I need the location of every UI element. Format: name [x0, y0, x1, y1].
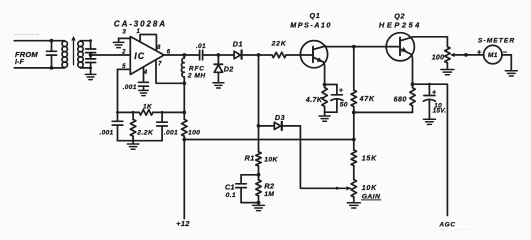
label: 22K [271, 41, 287, 48]
label: MPS-A10 [290, 21, 332, 30]
op-amp IC1 CA-3028A triangle [130, 37, 164, 75]
svg-text:3: 3 [122, 30, 126, 36]
diode D3 [259, 122, 301, 130]
node: Q2 emitter junction [411, 82, 415, 86]
svg-text:MPS-A10: MPS-A10 [290, 21, 332, 30]
svg-text:(+3 TO +10V.): (+3 TO +10V.) [427, 229, 471, 230]
svg-text:15K: 15K [362, 155, 377, 162]
ground: 100 pot [441, 63, 454, 75]
label: 1K [143, 104, 152, 111]
label: IC inside triangle [134, 51, 145, 61]
svg-text:+: + [477, 47, 482, 56]
wire: 4.7K bottom [325, 111, 337, 113]
label: Q1 [310, 11, 321, 20]
wire: input top rail [14, 34, 64, 40]
wire: R1 to R2 node [257, 166, 261, 180]
label: meter minus [503, 48, 508, 57]
wire: secondary top [81, 39, 93, 42]
svg-text:680: 680 [394, 97, 407, 104]
label: 15K [362, 155, 377, 162]
ground: 10uF [423, 119, 435, 124]
svg-text:10K: 10K [362, 185, 377, 192]
resistor 680 [410, 84, 415, 112]
svg-text:HEP254: HEP254 [379, 21, 422, 30]
label: pin 4 [143, 70, 148, 76]
label: D3 [275, 113, 285, 122]
svg-text:CA-3028A: CA-3028A [114, 19, 167, 28]
label: AGC [438, 222, 455, 229]
wire: 22K to Q1 base [286, 54, 301, 56]
label: 47K [359, 96, 375, 103]
label: 15V. [433, 108, 447, 115]
label: 2.2K [136, 130, 154, 137]
wire: bypass bottom [118, 139, 163, 142]
wire: C1 bottom branch [241, 196, 260, 205]
svg-text:+12: +12 [176, 219, 190, 228]
svg-text:Q1: Q1 [310, 11, 321, 20]
node: 47K bottom [352, 111, 356, 115]
label: 4.7K [305, 97, 323, 104]
wire: pin5 node to 1K [116, 111, 139, 114]
svg-text:RFC: RFC [189, 65, 205, 72]
label: S-METER [478, 38, 515, 45]
ground: bypass network [127, 141, 139, 150]
potentiometer 100 [445, 47, 450, 63]
label: pin 1 [136, 29, 140, 35]
wire: D3 to gain pot [300, 126, 350, 191]
wire: 47K to 680 [354, 111, 413, 113]
wire: input bottom rail [14, 67, 64, 69]
capacitor 50uF [331, 85, 343, 113]
transformer T1 primary winding [62, 41, 67, 67]
svg-text:4.7K: 4.7K [305, 97, 323, 104]
wire: +12 feed [183, 140, 185, 219]
wire: wiper to meter [458, 53, 484, 57]
pin 3 wire and ground [113, 38, 130, 47]
wire: Q2 collector to pot [413, 37, 447, 47]
label: 50 [340, 101, 348, 108]
svg-text:AGC: AGC [438, 222, 455, 229]
svg-text:100: 100 [432, 54, 445, 61]
label: R2 1M [264, 191, 274, 198]
wire: emitter to 50 cap [325, 84, 337, 86]
diode D2 to ground [214, 55, 222, 82]
wire: AGC line [446, 84, 448, 215]
label: HEP254 [379, 21, 422, 30]
node: +12 junction [182, 138, 186, 142]
node: divider tap [89, 53, 93, 57]
svg-text:D3: D3 [275, 113, 285, 122]
capacitor: divider top [86, 41, 96, 55]
ground: meter [505, 71, 517, 76]
node: input cap top [50, 39, 54, 43]
ground: transformer secondary [85, 68, 96, 80]
svg-text:S-METER: S-METER [478, 38, 515, 45]
ground: R2/C1 [253, 205, 265, 210]
transistor Q2 HEP254 [386, 33, 414, 85]
wire: Q1 collector to Q2 base [326, 46, 387, 48]
resistor 1K [139, 110, 153, 115]
label: AGC range [427, 229, 471, 236]
svg-text:IC: IC [134, 51, 145, 61]
label: pin 5 [122, 64, 126, 70]
label: FROM I-F [15, 50, 38, 66]
ground: D2 [213, 83, 224, 88]
node: Q1 emitter junction [323, 83, 327, 87]
label: R2 [264, 182, 275, 191]
svg-text:1: 1 [136, 29, 140, 35]
svg-text:1M: 1M [264, 191, 274, 198]
label: meter plus [477, 47, 482, 56]
node: pin7/RFC junction [182, 81, 186, 85]
svg-text:I-F: I-F [15, 59, 25, 66]
wire: 1K to 100 node [132, 111, 185, 114]
capacitor: divider bottom [86, 55, 96, 68]
resistor 100 supply [182, 119, 187, 136]
svg-text:C1: C1 [225, 182, 235, 191]
label: .01 [196, 43, 206, 50]
svg-text:4: 4 [143, 70, 148, 76]
potentiometer 10K GAIN [351, 180, 356, 203]
svg-text:10K: 10K [264, 157, 278, 164]
label: pin 8 [157, 45, 161, 51]
meter M1 [484, 45, 502, 63]
capacitor .01 coupling [200, 50, 203, 60]
wire: pin 5 drop [118, 69, 131, 112]
capacitor C .001 pin 4 [139, 82, 149, 90]
inductor RFC 2MH [181, 55, 184, 83]
label: plus 10uF [432, 90, 436, 97]
capacitor .001 left [112, 112, 123, 140]
svg-text:2 MH: 2 MH [187, 72, 206, 79]
wire: Q2 emitter to AGC corner [413, 83, 448, 86]
wire: 15K to pot [353, 166, 355, 180]
label: pin 2 [121, 49, 126, 55]
svg-text:0.1: 0.1 [226, 192, 236, 199]
svg-text:FROM: FROM [15, 50, 38, 59]
wire: bias rail to 15K [184, 139, 353, 141]
svg-text:50: 50 [340, 101, 348, 108]
resistor 22K [272, 52, 286, 57]
svg-text:+: + [339, 88, 343, 95]
transformer T1 core arrow [71, 36, 76, 65]
svg-text:Q2: Q2 [394, 11, 405, 20]
wire: pin 6 output [164, 53, 200, 57]
resistor 47K [351, 47, 356, 113]
svg-text:2: 2 [121, 49, 126, 55]
svg-text:2.2K: 2.2K [136, 130, 154, 137]
resistor R1 10K [256, 152, 261, 166]
wire: secondary bottom [81, 66, 93, 69]
svg-text:47K: 47K [359, 96, 375, 103]
label: 100 supply [188, 130, 200, 137]
label: .001 pin4 [123, 84, 137, 91]
capacitor .001 right [157, 112, 168, 140]
label: C1 [225, 182, 235, 191]
resistor 15K [351, 150, 356, 166]
label: 10K pot [362, 185, 377, 192]
resistor 4.7K [322, 85, 327, 113]
wire: 47K node down [352, 112, 356, 150]
svg-text:.01: .01 [196, 43, 206, 50]
label: .001 right [164, 130, 178, 137]
wire: pin 4 stub [143, 67, 145, 81]
label: plus 50 [339, 88, 343, 95]
wire: pin 1 to pin 8 loop [140, 35, 156, 51]
label: C1 0.1 [226, 192, 236, 199]
label: GAIN [362, 194, 381, 201]
label: pin 3 [122, 30, 126, 36]
capacitor: input tank cap [47, 41, 57, 68]
wire: meter to ground [502, 55, 511, 71]
label: 680 [394, 97, 407, 104]
svg-text:R2: R2 [264, 182, 275, 191]
svg-text:7: 7 [158, 62, 162, 68]
label: 10 [434, 102, 442, 109]
svg-text:1K: 1K [143, 104, 152, 111]
wire: D1 to 22K [243, 53, 272, 57]
wire: D1 output down [257, 55, 261, 152]
svg-text:D1: D1 [233, 39, 243, 48]
label: CA-3028A [114, 19, 167, 28]
svg-text:.001: .001 [99, 130, 113, 137]
svg-text:D2: D2 [224, 64, 234, 73]
wire: 100 to +12 node [183, 136, 185, 139]
label: pin 6 [167, 49, 171, 55]
label: RFC 2MH [187, 65, 206, 79]
svg-text:M1: M1 [488, 52, 498, 59]
svg-text:100: 100 [188, 130, 200, 137]
svg-text:15V.: 15V. [433, 108, 447, 115]
svg-text:R1: R1 [245, 154, 255, 163]
capacitor C1 0.1 [236, 184, 247, 203]
svg-text:.001: .001 [123, 84, 137, 91]
svg-text:.001: .001 [164, 130, 178, 137]
resistor 2.2K [130, 112, 135, 140]
svg-text:22K: 22K [271, 41, 287, 48]
label: pin 7 [158, 62, 162, 68]
label: .001 left [99, 130, 113, 137]
transistor Q1 MPS-A10 [300, 41, 327, 85]
label: R1 [245, 154, 255, 163]
label: D1 [233, 39, 243, 48]
svg-text:+: + [432, 90, 436, 97]
svg-text:5: 5 [122, 64, 126, 70]
transformer T1 secondary winding [78, 41, 83, 67]
ground: Q1 emitter network [319, 112, 330, 121]
node: input cap bottom [50, 66, 54, 70]
label: +12 [176, 219, 190, 228]
wire: pin 7 drop [156, 60, 184, 84]
wire: C1 top branch [241, 175, 258, 183]
svg-text:8: 8 [157, 45, 161, 51]
wire: cap to D1 [203, 53, 235, 57]
ground: pin 4 cap [139, 90, 148, 95]
wire: to pin 2 [91, 54, 131, 56]
label: Q2 [394, 11, 405, 20]
resistor R2 1M [256, 180, 261, 196]
label: 100 pot [432, 54, 445, 61]
ground: gain pot [347, 203, 360, 208]
label: R1 10K [264, 157, 278, 164]
wire: RFC to 100 [182, 83, 186, 119]
node: 47K tap [352, 45, 356, 49]
wiper: 100 pot [450, 53, 458, 57]
label: D2 [224, 64, 234, 73]
capacitor 10uF 15V [423, 84, 435, 119]
diode D1 [234, 50, 242, 59]
